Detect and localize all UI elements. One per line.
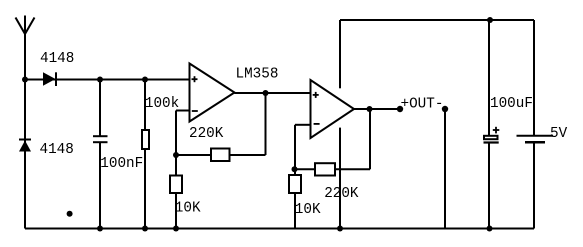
wire U1A output to U2A input	[235, 92, 311, 94]
node top rail / 100uF junction	[487, 17, 493, 23]
wire stage1 feedback horizontal	[176, 154, 266, 156]
diode D1 4148 horizontal	[43, 72, 56, 86]
op-amp U1A	[190, 64, 235, 122]
wire V+ power line upper segment	[339, 20, 341, 88]
node bottom rail junction 10K stage1	[173, 226, 179, 232]
wire U2A inverting input jog	[295, 125, 311, 170]
node junction antenna/main wire	[22, 77, 28, 83]
wire main horizontal node at y=79.5	[25, 79, 190, 81]
svg-text:4148: 4148	[40, 51, 74, 67]
wire OUT- down to bottom rail	[444, 109, 446, 229]
op-amp U2A	[311, 80, 355, 138]
resistor R1 100k	[142, 130, 149, 149]
node bottom rail junction 100uF	[487, 226, 493, 232]
node bottom rail junction 100k	[142, 226, 148, 232]
node stray dot	[67, 211, 73, 217]
wire V- power line lower segment	[339, 128, 341, 229]
capacitor C2 100uF electrolytic	[484, 127, 500, 143]
node OUT+ terminal	[397, 106, 403, 112]
node junction main wire / 100k	[142, 77, 148, 83]
wire stage1 feedback vertical to output	[265, 93, 267, 155]
node U1A output junction	[263, 90, 269, 96]
node feedback junction stage2	[292, 166, 298, 172]
svg-text:100uF: 100uF	[490, 96, 533, 112]
resistor R2 220K stage1	[211, 149, 230, 162]
svg-text:5V: 5V	[550, 126, 568, 142]
node OUT- terminal	[442, 106, 448, 112]
capacitor C1 100nF	[93, 136, 108, 142]
wire 100nF column	[99, 80, 101, 229]
svg-text:+OUT-: +OUT-	[401, 96, 444, 112]
wire antenna down to bottom rail	[24, 34, 26, 229]
wire stage2 feedback horizontal	[295, 168, 371, 170]
resistor R4 220K stage2	[315, 163, 335, 175]
wire 100uF column	[488, 20, 490, 229]
wire stage1 10K column	[175, 155, 177, 229]
resistor R5 10K stage2	[289, 175, 301, 193]
battery BT1 5V	[517, 136, 554, 142]
svg-text:100nF: 100nF	[100, 156, 143, 172]
svg-text:10K: 10K	[295, 202, 321, 218]
resistor R3 10K stage1	[170, 176, 182, 194]
node U2A output junction	[367, 106, 373, 112]
wire stage2 10K column	[294, 169, 296, 228]
node bottom rail junction 100nF	[97, 226, 103, 232]
svg-text:LM358: LM358	[236, 67, 279, 83]
wire bottom rail	[25, 228, 534, 230]
wire top rail	[340, 19, 534, 21]
node power line / bottom rail junction	[337, 226, 343, 232]
svg-text:4148: 4148	[40, 142, 74, 158]
antenna ANT1	[16, 16, 35, 35]
node feedback junction stage1	[173, 152, 179, 158]
wire 100k column	[144, 80, 146, 229]
wire U1A inverting input jog	[176, 111, 190, 156]
svg-text:10K: 10K	[175, 200, 201, 216]
wire battery column	[533, 20, 535, 229]
wire stage2 feedback vertical to output	[369, 109, 371, 169]
diode D2 4148 vertical	[19, 140, 31, 152]
svg-text:100k: 100k	[145, 96, 179, 112]
node junction main wire / 100nF	[97, 77, 103, 83]
svg-text:220K: 220K	[324, 186, 359, 202]
wire U2A output to OUT+ terminal	[354, 108, 400, 110]
svg-text:220K: 220K	[189, 126, 224, 142]
